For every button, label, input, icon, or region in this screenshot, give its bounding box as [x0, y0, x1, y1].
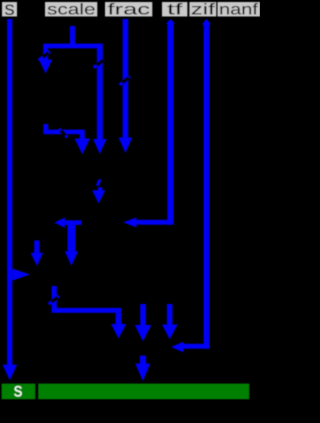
- wire final arrow stem: [140, 356, 146, 364]
- node label frac: [105, 2, 152, 19]
- svg-text:s: s: [4, 0, 14, 20]
- svg-text:tf: tf: [167, 2, 183, 19]
- arrowhead rounder output: [92, 190, 105, 203]
- wire mid arrow 1: [140, 304, 146, 325]
- node label zif: [189, 2, 216, 19]
- svg-text:s: s: [14, 381, 23, 402]
- result sign box green: [2, 381, 36, 402]
- arrowhead thick T drop: [65, 251, 78, 265]
- wire H1 horizontal from scale: [43, 44, 103, 49]
- wire thick T drop: [68, 224, 76, 251]
- wire mid arrow 2: [167, 304, 173, 325]
- wire frac vertical: [123, 19, 129, 138]
- arrowhead tf up: [166, 19, 175, 24]
- tick T3 on frac wire: [120, 77, 130, 85]
- svg-text:nanf: nanf: [219, 2, 259, 19]
- tick T1 on left drop: [39, 52, 50, 61]
- wire tf vertical: [167, 23, 173, 225]
- wire left drop from H1: [43, 48, 48, 60]
- arrowhead left drop: [39, 60, 52, 74]
- node label nanf: [218, 2, 261, 19]
- svg-text:frac: frac: [108, 2, 151, 19]
- arrowhead frac: [119, 138, 133, 154]
- wire H6 horizontal: [52, 308, 122, 313]
- wire rounder output stem: [98, 187, 102, 191]
- wire drop from H2 right end: [80, 134, 85, 139]
- arrowhead right drop: [93, 139, 107, 154]
- wire arrow at x37: [34, 240, 39, 252]
- svg-text:zif: zif: [191, 2, 216, 19]
- node label s: [2, 0, 17, 20]
- wire zif vertical: [204, 24, 210, 349]
- arrowhead zif up: [202, 19, 211, 25]
- wire right drop from H1 (to rounder): [97, 48, 103, 140]
- tick T2 on right drop: [94, 60, 104, 68]
- wire H5 horizontal from zif corner: [183, 344, 209, 349]
- arrowhead H6 drop: [111, 324, 126, 339]
- wire s vertical: [7, 19, 12, 365]
- node label tf: [162, 2, 187, 19]
- wire packer stub: [52, 286, 57, 309]
- arrowhead arrow at x37: [31, 253, 43, 266]
- arrowhead H4 left: [54, 218, 65, 228]
- arrowhead mid arrow 2: [162, 325, 178, 340]
- result main bar green: [38, 384, 249, 400]
- arrowhead final into result: [135, 364, 150, 382]
- arrowhead mid arrow 1: [135, 325, 151, 341]
- arrowhead s branch right: [12, 269, 30, 281]
- node label scale: [45, 2, 97, 19]
- arrowhead H3 left: [123, 218, 136, 228]
- tick T6 on packer stub: [49, 296, 59, 304]
- wire drop from H6 right end: [116, 313, 122, 324]
- wire scale stem: [70, 26, 75, 48]
- arrowhead H2 drop: [75, 139, 90, 155]
- wire H4 horizontal: [65, 220, 82, 225]
- tick nub on rounder output: [96, 179, 102, 186]
- arrowhead H5 left: [171, 342, 183, 353]
- wire H3 horizontal from tf corner: [136, 220, 174, 225]
- arrowhead s into result: [3, 365, 17, 381]
- tick T4 on H2: [59, 129, 68, 138]
- wire H2 horizontal: [43, 130, 84, 135]
- svg-text:scale: scale: [47, 2, 96, 19]
- wire stub up from H2: [43, 124, 48, 131]
